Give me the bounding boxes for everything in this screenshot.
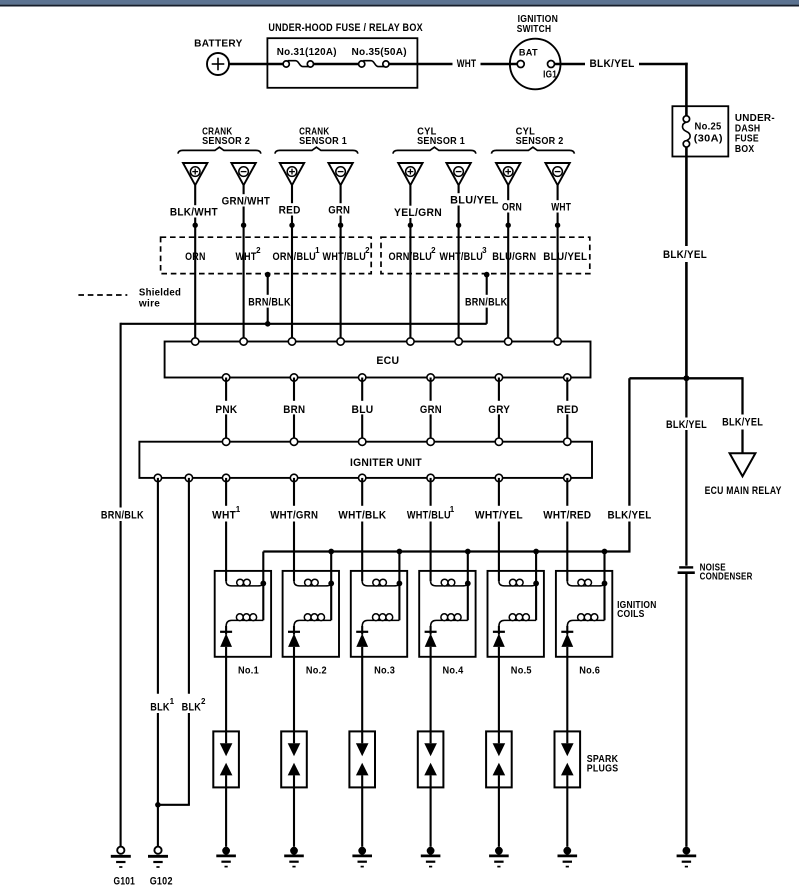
ECU input pin	[554, 338, 561, 345]
label CYL SENSOR 2 with bracket	[491, 126, 574, 153]
svg-text:BOX: BOX	[735, 144, 755, 155]
bus tap junction	[397, 549, 403, 555]
igniter output pin	[495, 474, 502, 481]
spark plug No.3	[349, 731, 375, 846]
spark plug No.5	[486, 731, 512, 846]
wire RED ECU to igniter	[557, 378, 579, 442]
ignition coil No.1	[215, 552, 271, 677]
svg-text:BLK/YEL: BLK/YEL	[608, 509, 652, 521]
battery	[194, 37, 243, 75]
ignition switch	[510, 14, 561, 89]
under-hood fuse / relay box	[267, 22, 423, 88]
wire WHT/BLU1 igniter to coil No.4	[407, 478, 455, 581]
svg-text:COILS: COILS	[617, 609, 645, 620]
svg-text:ECU MAIN RELAY: ECU MAIN RELAY	[705, 485, 782, 497]
wire BLK1 igniter to ground G102	[150, 478, 174, 847]
svg-text:WHT/RED: WHT/RED	[543, 509, 591, 521]
igniter output pin	[154, 474, 161, 481]
fuse No.31(120A)	[277, 46, 337, 67]
label CRANK SENSOR 2 with bracket	[178, 126, 261, 153]
svg-text:SWITCH: SWITCH	[517, 24, 552, 35]
svg-text:BLK/YEL: BLK/YEL	[663, 249, 707, 261]
svg-text:YEL/GRN: YEL/GRN	[394, 207, 442, 219]
svg-text:WHT/BLU: WHT/BLU	[323, 251, 367, 263]
node BLK1/BLK2 junction	[155, 802, 161, 808]
secondary winding	[499, 620, 536, 626]
svg-text:GRN: GRN	[420, 404, 442, 416]
svg-text:No.1: No.1	[238, 664, 259, 676]
svg-text:1: 1	[170, 697, 175, 706]
wire GRN/WHT from crank sensor 2 (-)	[222, 185, 271, 341]
igniter input pin	[290, 438, 297, 445]
ground G102	[148, 847, 173, 888]
ECU input pin	[505, 338, 512, 345]
wire YEL/GRN from cyl sensor 1 (+)	[394, 185, 442, 341]
svg-text:ORN/BLU: ORN/BLU	[389, 251, 433, 263]
wire to ignition coil +B bus (BLK/YEL)	[608, 378, 652, 551]
node drain junction	[265, 321, 271, 327]
wire WHT/GRN igniter to coil No.2	[270, 478, 318, 581]
shield drain wire BRN/BLK (cyl)	[465, 272, 508, 324]
wire ORN from cyl sensor 2 (+)	[502, 185, 522, 341]
coil right feed wire	[603, 552, 605, 621]
svg-text:BLU/YEL: BLU/YEL	[543, 251, 587, 263]
ignition coil No.4	[419, 549, 475, 677]
svg-text:2: 2	[431, 246, 436, 255]
spark plug No.4	[418, 731, 444, 846]
svg-text:Shielded: Shielded	[139, 286, 181, 298]
label CRANK SENSOR 1 with bracket	[275, 126, 358, 153]
svg-text:BLU/YEL: BLU/YEL	[450, 195, 499, 207]
svg-text:No.25: No.25	[695, 120, 722, 132]
label spark plugs	[587, 754, 619, 775]
cyl sensor 1 (+) terminal	[398, 163, 422, 185]
svg-text:No.5: No.5	[511, 664, 532, 676]
svg-text:No.3: No.3	[374, 664, 395, 676]
shield junction dot	[555, 223, 560, 228]
wire fuse box to ignition switch (WHT)	[389, 58, 517, 70]
wire coil No.4 to spark plug	[430, 647, 432, 732]
igniter input pin	[495, 438, 502, 445]
wire BRN/BLK to ground G101	[101, 323, 144, 847]
svg-text:ORN: ORN	[185, 251, 206, 263]
svg-text:PLUGS: PLUGS	[587, 764, 619, 775]
igniter input pin	[427, 438, 434, 445]
diode D5	[498, 626, 500, 635]
secondary winding	[431, 620, 468, 626]
bus tap junction	[602, 549, 608, 555]
svg-text:BRN/BLK: BRN/BLK	[101, 509, 144, 521]
svg-text:1: 1	[315, 246, 320, 255]
bus tap junction	[328, 549, 334, 555]
wire WHT/YEL igniter to coil No.5	[475, 478, 523, 581]
wire WHT/RED igniter to coil No.6	[543, 478, 591, 581]
secondary winding	[362, 620, 399, 626]
svg-text:3: 3	[482, 246, 487, 255]
wire coil No.6 to spark plug	[566, 647, 568, 732]
svg-text:WHT: WHT	[236, 251, 257, 263]
svg-text:BATTERY: BATTERY	[194, 37, 243, 49]
fuse No.35(50A)	[351, 46, 407, 67]
svg-text:CONDENSER: CONDENSER	[700, 571, 753, 582]
svg-text:IGNITER UNIT: IGNITER UNIT	[350, 457, 422, 469]
noise condenser	[678, 562, 753, 582]
svg-text:BRN/BLK: BRN/BLK	[465, 297, 508, 309]
svg-text:SENSOR 2: SENSOR 2	[516, 136, 564, 147]
bus tap junction	[465, 549, 471, 555]
wire junction branch horizontal	[629, 377, 742, 379]
wire RED from crank sensor 1 (+)	[279, 185, 301, 341]
igniter output pin	[564, 474, 571, 481]
svg-text:WHT: WHT	[457, 58, 477, 70]
ECU output pin	[495, 374, 502, 381]
primary winding	[226, 581, 263, 586]
wire BLK2 igniter	[158, 478, 206, 805]
ignition coil +B bus (BLK/YEL)	[263, 550, 630, 552]
primary winding	[567, 581, 604, 586]
wire coil No.5 to spark plug	[498, 647, 500, 732]
ground G101	[111, 847, 135, 888]
svg-text:BLU/GRN: BLU/GRN	[492, 251, 536, 263]
wire noise condenser to ground	[685, 574, 687, 847]
ground (noise condenser)	[677, 847, 697, 867]
svg-text:ECU: ECU	[376, 355, 399, 367]
crank sensor 2 (+) terminal	[183, 163, 207, 185]
svg-text:No.35(50A): No.35(50A)	[351, 46, 407, 58]
shield drain bus	[121, 323, 487, 325]
wire to ECU main relay (BLK/YEL)	[722, 377, 763, 453]
crank sensor 2 (-) terminal	[231, 163, 255, 185]
ECU input pin	[337, 338, 344, 345]
ground (spark plug No.5)	[489, 847, 509, 867]
svg-text:BAT: BAT	[519, 48, 538, 59]
node primary to +B	[602, 581, 608, 587]
wire PNK ECU to igniter	[215, 378, 237, 442]
svg-text:2: 2	[201, 697, 206, 706]
ignition coil No.5	[488, 549, 544, 677]
svg-text:WHT: WHT	[212, 509, 236, 521]
secondary winding	[294, 620, 331, 626]
wire GRY ECU to igniter	[488, 378, 510, 442]
svg-text:2: 2	[365, 246, 370, 255]
wire coil No.3 to spark plug	[361, 647, 363, 732]
svg-text:No.6: No.6	[579, 664, 600, 676]
igniter unit U2	[139, 442, 592, 478]
igniter input pin	[359, 438, 366, 445]
ECU output pin	[222, 374, 229, 381]
ground (spark plug No.3)	[352, 847, 372, 867]
svg-text:wire: wire	[138, 298, 160, 310]
igniter output pin	[359, 474, 366, 481]
shielded wire legend	[78, 286, 181, 309]
igniter input pin	[564, 438, 571, 445]
diode D1	[225, 626, 227, 635]
under-dash fuse box	[672, 106, 775, 156]
igniter output pin	[427, 474, 434, 481]
svg-text:GRN/WHT: GRN/WHT	[222, 196, 271, 208]
svg-text:ORN/BLU: ORN/BLU	[273, 251, 317, 263]
ECU U1	[165, 342, 591, 378]
svg-text:BLK/YEL: BLK/YEL	[722, 416, 763, 428]
ECU input pin	[407, 338, 414, 345]
wire BLK/WHT from crank sensor 2 (+)	[170, 185, 218, 341]
shield junction dot	[506, 223, 511, 228]
diode D6	[566, 626, 568, 635]
svg-text:1: 1	[236, 505, 241, 514]
cyl sensor 2 (+) terminal	[496, 163, 520, 185]
coil right feed wire	[398, 552, 400, 621]
svg-text:BLK/YEL: BLK/YEL	[590, 58, 635, 70]
secondary winding	[567, 620, 604, 626]
svg-text:BRN/BLK: BRN/BLK	[248, 297, 291, 309]
svg-text:BLK/WHT: BLK/WHT	[170, 207, 218, 219]
svg-text:WHT/BLK: WHT/BLK	[338, 509, 386, 521]
wire GRN ECU to igniter	[420, 378, 442, 442]
crank sensor 1 (-) terminal	[328, 163, 352, 185]
ECU output pin	[290, 374, 297, 381]
spark plug No.6	[555, 731, 581, 846]
ignition coil No.2	[283, 549, 339, 677]
wire between fuses	[313, 63, 358, 66]
svg-text:G102: G102	[150, 875, 173, 887]
wire under-dash fuse to junction (BLK/YEL)	[663, 157, 707, 379]
node primary to +B	[328, 581, 334, 587]
svg-text:WHT/YEL: WHT/YEL	[475, 509, 523, 521]
wire battery to under-hood fuse box	[229, 63, 283, 66]
shielded wire box (crank sensors)	[161, 237, 372, 273]
svg-text:BLU: BLU	[352, 404, 374, 416]
svg-text:BLK: BLK	[182, 701, 202, 713]
svg-text:2: 2	[256, 246, 261, 255]
igniter output pin	[222, 474, 229, 481]
igniter output pin	[185, 474, 192, 481]
shield junction dot	[289, 223, 294, 228]
spark plug No.2	[281, 731, 307, 846]
node BLK/YEL junction	[683, 375, 689, 381]
svg-text:WHT: WHT	[551, 202, 571, 214]
ground (spark plug No.2)	[284, 847, 304, 867]
ground (spark plug No.1)	[216, 847, 236, 867]
wire WHT/BLK igniter to coil No.3	[338, 478, 386, 581]
svg-text:WHT/BLU: WHT/BLU	[440, 251, 484, 263]
ECU input pin	[288, 338, 295, 345]
ground (spark plug No.6)	[558, 847, 578, 867]
svg-text:BLK: BLK	[150, 701, 170, 713]
label CYL SENSOR 1 with bracket	[393, 126, 476, 153]
cyl sensor 1 (-) terminal	[446, 163, 470, 185]
shield junction dot	[456, 223, 461, 228]
terminal BAT	[517, 48, 538, 68]
svg-text:SENSOR 1: SENSOR 1	[299, 136, 347, 147]
svg-text:RED: RED	[279, 205, 301, 217]
svg-text:BLK/YEL: BLK/YEL	[666, 419, 707, 431]
ignition coil No.3	[351, 549, 407, 677]
ignition coil No.6	[556, 549, 612, 677]
diode D4	[430, 626, 432, 635]
ECU main relay connector	[705, 453, 782, 497]
ECU output pin	[427, 374, 434, 381]
svg-text:RED: RED	[557, 404, 579, 416]
svg-text:(30A): (30A)	[694, 132, 723, 144]
cyl sensor 2 (-) terminal	[545, 163, 569, 185]
wire IG1 to under-dash fuse box (BLK/YEL)	[555, 58, 688, 106]
svg-text:ORN: ORN	[502, 202, 522, 214]
svg-text:No.31(120A): No.31(120A)	[277, 46, 337, 58]
wire GRN from crank sensor 1 (-)	[328, 185, 350, 341]
spark plug No.1	[213, 731, 239, 846]
coil right feed wire	[535, 552, 537, 621]
svg-text:BRN: BRN	[283, 404, 305, 416]
svg-text:No.4: No.4	[443, 664, 464, 676]
coil right feed wire	[330, 552, 332, 621]
wire BLU ECU to igniter	[352, 378, 374, 442]
secondary winding	[226, 620, 263, 626]
igniter output pin	[290, 474, 297, 481]
wire BLU/YEL from cyl sensor 1 (-)	[450, 185, 499, 341]
node primary to +B	[397, 581, 403, 587]
ECU input pin	[455, 338, 462, 345]
ECU input pin	[240, 338, 247, 345]
shield junction dot	[338, 223, 343, 228]
ECU output pin	[359, 374, 366, 381]
svg-text:G101: G101	[114, 875, 136, 887]
coil right feed wire	[262, 552, 264, 621]
diode D2	[293, 626, 295, 635]
primary winding	[431, 581, 468, 586]
svg-text:1: 1	[450, 505, 455, 514]
node primary to +B	[533, 581, 539, 587]
wire BRN ECU to igniter	[283, 378, 305, 442]
svg-text:WHT/GRN: WHT/GRN	[270, 509, 318, 521]
shield junction dot	[241, 223, 246, 228]
node primary to +B	[260, 581, 266, 587]
fuse No.25 (30A)	[683, 106, 723, 156]
shield junction dot	[408, 223, 413, 228]
crank sensor 1 (+) terminal	[280, 163, 304, 185]
ECU input pin	[192, 338, 199, 345]
shield junction dot	[193, 223, 198, 228]
ground (spark plug No.4)	[421, 847, 441, 867]
primary winding	[362, 581, 399, 586]
svg-text:GRN: GRN	[328, 205, 350, 217]
node primary to +B	[465, 581, 471, 587]
svg-text:No.2: No.2	[306, 664, 327, 676]
bus tap junction	[533, 549, 539, 555]
svg-text:WHT/BLU: WHT/BLU	[407, 509, 451, 521]
svg-text:UNDER-HOOD FUSE / RELAY BOX: UNDER-HOOD FUSE / RELAY BOX	[268, 22, 423, 34]
ECU output pin	[564, 374, 571, 381]
label ignition coils	[617, 600, 657, 620]
wire coil No.2 to spark plug	[293, 647, 295, 732]
terminal IG1	[543, 61, 557, 81]
svg-text:SENSOR 1: SENSOR 1	[417, 136, 465, 147]
primary winding	[294, 581, 331, 586]
wire WHT from cyl sensor 2 (-)	[551, 185, 571, 341]
coil right feed wire	[467, 552, 469, 621]
shield drain wire BRN/BLK (crank)	[248, 272, 291, 324]
igniter input pin	[222, 438, 229, 445]
svg-text:SENSOR 2: SENSOR 2	[202, 136, 250, 147]
primary winding	[499, 581, 536, 586]
wire WHT1 igniter to coil No.1	[212, 478, 241, 581]
svg-text:IG1: IG1	[543, 69, 557, 80]
svg-text:PNK: PNK	[215, 404, 237, 416]
wire to noise condenser (BLK/YEL)	[666, 378, 707, 566]
svg-text:GRY: GRY	[488, 404, 510, 416]
diode D3	[361, 626, 363, 635]
wire coil No.1 to spark plug	[225, 647, 227, 732]
shielded wire box (cyl sensors)	[381, 237, 590, 273]
